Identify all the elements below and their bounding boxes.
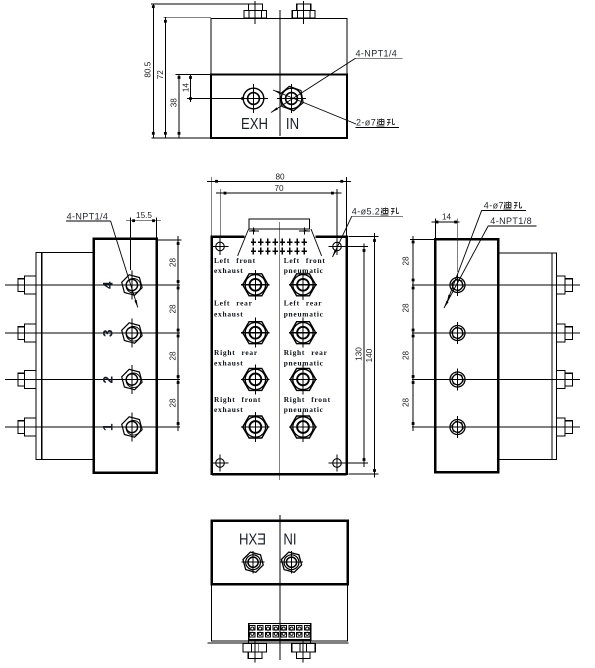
svg-text:4-ø5.2: 4-ø5.2	[352, 207, 380, 217]
dimension 72 line	[164, 17, 167, 138]
dimension 28 text 1 (right view)	[402, 256, 411, 266]
port left column row 3 (front view)	[241, 364, 269, 394]
svg-text:exhaust: exhaust	[214, 310, 243, 319]
dimension 140 top extension	[349, 236, 379, 238]
port row 1 (right view)	[450, 274, 465, 296]
bottom view block upper part (front face)	[212, 521, 348, 584]
leader to 4-NPT1/4 (left view)	[111, 221, 138, 308]
mounting hole bottom-left	[212, 455, 229, 472]
callout 4-o7 through hole	[482, 200, 526, 210]
left view bolt 2	[18, 371, 36, 389]
dimension 130 line	[363, 244, 366, 468]
callout 4-o5.2 through hole	[352, 207, 403, 217]
port EXH (bottom view)	[242, 551, 265, 574]
dimension 38 line	[178, 74, 181, 138]
callout 4-NPT1/4 (top view)	[355, 49, 403, 59]
svg-text:130: 130	[354, 347, 363, 361]
svg-text:4-NPT1/4: 4-NPT1/4	[67, 211, 109, 221]
left view bolt 4	[18, 276, 36, 294]
leader to 4-o7 hole (right view)	[447, 210, 482, 302]
svg-text:4-NPT1/4: 4-NPT1/4	[356, 49, 398, 59]
right view gasket plate	[552, 253, 556, 460]
svg-text:Left front: Left front	[214, 256, 256, 265]
row 4 centerline (right view)	[412, 426, 580, 428]
dimension 80.5 top extension line	[151, 3, 248, 5]
svg-text:exhaust: exhaust	[214, 405, 243, 414]
dimension 80.5 text	[144, 61, 153, 77]
mounting hole top-left	[212, 238, 229, 255]
svg-text:28: 28	[402, 398, 411, 408]
left view bolt 3	[18, 324, 36, 342]
port label row 3 left	[214, 348, 258, 368]
port number 3	[101, 329, 116, 337]
port number 4	[101, 281, 116, 289]
right view mounting plate	[498, 253, 552, 460]
svg-text:28: 28	[402, 303, 411, 313]
dimension 130 text	[354, 347, 363, 361]
dimension 28 top extension (left view)	[157, 239, 182, 241]
dimension 80.5 bottom extension line	[151, 137, 211, 139]
leader to 4-o5.2 hole	[333, 216, 352, 257]
top view vertical centerline	[279, 10, 281, 136]
svg-text:2: 2	[101, 376, 116, 384]
port number 1	[101, 423, 116, 431]
left view bolt 1	[18, 418, 36, 436]
top view bolt 2 cap	[297, 4, 311, 10]
svg-text:exhaust: exhaust	[214, 359, 243, 368]
dimension 72 top extension line	[163, 17, 211, 19]
bottom bolt 2	[292, 640, 316, 662]
dimension 72 text	[156, 70, 165, 80]
svg-text:Left rear: Left rear	[214, 299, 253, 308]
svg-text:Right front: Right front	[214, 395, 261, 404]
port number 2	[101, 376, 116, 384]
svg-text:4: 4	[101, 281, 116, 289]
dimension 28 text 4 (right view)	[402, 398, 411, 408]
label EXH mirrored (bottom view)	[239, 531, 266, 548]
row 2 centerline (right view)	[412, 332, 580, 334]
port 3 (left view)	[122, 319, 142, 348]
bottom view block lower part	[212, 584, 348, 641]
svg-text:NI: NI	[283, 531, 296, 548]
svg-text:Right front: Right front	[284, 395, 331, 404]
svg-text:4-ø7: 4-ø7	[484, 200, 504, 210]
svg-text:28: 28	[402, 256, 411, 266]
svg-text:14: 14	[181, 83, 190, 93]
svg-text:2-ø7: 2-ø7	[356, 118, 376, 128]
connector pins (front view)	[251, 239, 307, 255]
dimension 80 left extension	[211, 177, 213, 237]
dimension 80 text	[275, 172, 285, 181]
bottom view vertical centerline	[279, 515, 281, 660]
row 2 centerline (left view)	[5, 379, 180, 381]
port 1 (left view)	[122, 413, 142, 442]
dimension 140 text	[365, 348, 374, 362]
svg-text:70: 70	[274, 184, 284, 193]
dimension 28 text 2 (left view)	[168, 304, 177, 314]
dimension 14 right extension (right view)	[456, 219, 458, 273]
leader to 4-NPT1/8 (right view)	[444, 226, 488, 308]
right view bolt 3	[556, 371, 572, 389]
connector recess right slant	[311, 229, 322, 256]
right view bolt 2	[556, 324, 572, 342]
right view bolt 4	[556, 418, 572, 436]
connector tab on top of front view	[249, 219, 310, 229]
port left column row 2 (front view)	[241, 318, 269, 348]
port 4 (left view)	[122, 271, 142, 300]
top view block outline upper part	[211, 18, 347, 74]
right view main block	[435, 239, 498, 472]
svg-text:4-NPT1/8: 4-NPT1/8	[490, 216, 532, 226]
connector side walls to base	[249, 640, 311, 644]
svg-text:14: 14	[442, 213, 452, 222]
svg-text:38: 38	[169, 98, 178, 108]
port label row 4 right	[284, 395, 331, 414]
label EXH	[241, 116, 268, 133]
svg-text:pneumatic: pneumatic	[284, 405, 324, 414]
svg-text:Right rear: Right rear	[284, 348, 328, 357]
top view bolt 2 head	[292, 10, 315, 18]
top view bolt 1 head	[244, 10, 267, 18]
port label row 1 left	[214, 256, 256, 275]
svg-text:28: 28	[168, 398, 177, 408]
top view bolt 1 centerline	[254, 1, 256, 24]
port label row 2 left	[214, 299, 253, 319]
port right column row 1 (front view)	[289, 270, 317, 300]
svg-text:72: 72	[156, 70, 165, 80]
port label row 2 right	[284, 299, 324, 319]
dimension 130 bottom extension	[342, 462, 368, 464]
dimension 15.5 text	[136, 211, 152, 220]
dimension 140 line	[373, 233, 376, 478]
port label row 3 right	[284, 348, 328, 368]
svg-text:pneumatic: pneumatic	[284, 359, 324, 368]
top view bolt 2 centerline	[303, 1, 305, 24]
connector pin holes (bottom view)	[250, 625, 310, 637]
dimension 80.5 line	[152, 4, 155, 138]
port right column row 2 (front view)	[289, 318, 317, 348]
left view main block	[94, 239, 157, 473]
dimension 28 text 3 (right view)	[402, 351, 411, 361]
port right column row 3 (front view)	[289, 364, 317, 394]
svg-text:80.5: 80.5	[144, 61, 153, 77]
dimension 14 text (right view)	[442, 213, 452, 222]
dimension 14 line (top view)	[189, 74, 192, 102]
dimension 14 line (right view)	[432, 221, 460, 224]
svg-text:28: 28	[168, 351, 177, 361]
small arrow mark right	[299, 227, 310, 234]
svg-text:pneumatic: pneumatic	[284, 310, 324, 319]
port EXH (top view)	[239, 84, 268, 113]
dimension 140 bottom extension	[349, 473, 379, 475]
dimension 15.5 right extension	[156, 218, 158, 239]
dimension 14 extension line to EXH port	[187, 97, 244, 100]
callout 2-o7 through hole (top view)	[356, 118, 400, 128]
svg-text:28: 28	[168, 304, 177, 314]
svg-text:pneumatic: pneumatic	[284, 266, 324, 275]
port label row 4 left	[214, 395, 261, 414]
row 4 centerline (left view)	[5, 284, 180, 286]
svg-text:140: 140	[365, 348, 374, 362]
svg-text:Left front: Left front	[284, 256, 326, 265]
dimension 70 left extension	[219, 189, 221, 247]
dimension 15.5 left extension	[130, 218, 132, 271]
dimension 130 top extension	[342, 246, 368, 248]
svg-text:Left rear: Left rear	[284, 299, 323, 308]
dimension 70 right extension	[336, 189, 338, 242]
dimension 15.5 line	[126, 219, 161, 222]
port row 4 (right view)	[450, 416, 465, 438]
row 1 centerline (left view)	[5, 426, 180, 428]
front view vertical centerline	[279, 222, 281, 480]
top view bolt 1 cap	[248, 4, 262, 10]
svg-text:EXH: EXH	[239, 531, 266, 548]
dimension 70 text	[274, 184, 284, 193]
dimension 14 text (top view)	[181, 83, 190, 93]
svg-text:3: 3	[101, 329, 116, 337]
leader to 2-o7 hole (top view)	[273, 90, 356, 124]
mounting hole top-right	[329, 238, 346, 255]
dimension 80 right extension	[346, 177, 348, 237]
svg-text:28: 28	[168, 258, 177, 268]
dimension 14 left extension (right view)	[435, 219, 437, 240]
dimension 28 column line (left view)	[177, 236, 180, 431]
label NI (bottom view, reversed IN)	[283, 531, 296, 548]
svg-text:Right rear: Right rear	[214, 348, 258, 357]
port IN (top view)	[277, 84, 306, 113]
label IN	[286, 116, 299, 133]
port row 3 (right view)	[450, 369, 465, 391]
svg-text:80: 80	[275, 172, 285, 181]
port row 2 (right view)	[450, 322, 465, 344]
top view block outline lower part (front face)	[211, 75, 347, 139]
dimension 28 text 1 (left view)	[168, 258, 177, 268]
port right column row 4 (front view)	[289, 412, 317, 442]
svg-text:28: 28	[402, 351, 411, 361]
port label row 1 right	[284, 256, 326, 275]
dimension 28 text 2 (right view)	[402, 303, 411, 313]
leader to 4-NPT1/4 (top view)	[271, 58, 356, 112]
mounting hole bottom-right	[329, 455, 346, 472]
bottom bolt 1	[243, 640, 267, 662]
small arrow mark left	[249, 227, 259, 234]
svg-text:exhaust: exhaust	[214, 266, 243, 275]
row 3 centerline (right view)	[412, 379, 580, 381]
dimension 28 column line (right view)	[412, 236, 415, 431]
right view bolt 1	[556, 276, 572, 294]
dimension 70 line	[216, 192, 342, 195]
row 1 centerline (right view)	[412, 284, 580, 286]
svg-text:EXH: EXH	[241, 116, 268, 133]
front view block outline	[212, 236, 347, 476]
svg-text:1: 1	[101, 423, 116, 431]
callout 4-NPT1/8	[488, 216, 536, 226]
dimension 28 text 3 (left view)	[168, 351, 177, 361]
left view mounting plate	[42, 253, 94, 460]
port 2 (left view)	[122, 365, 142, 394]
port left column row 1 (front view)	[241, 270, 269, 300]
dimension 28 text 4 (left view)	[168, 398, 177, 408]
dimension 80 line	[207, 180, 351, 183]
dimension 38 extension line	[176, 74, 212, 76]
electrical connector (bottom view)	[249, 624, 311, 640]
port left column row 4 (front view)	[241, 412, 269, 442]
svg-text:IN: IN	[286, 116, 299, 133]
bottom view base line	[208, 642, 349, 644]
row 3 centerline (left view)	[5, 332, 180, 334]
connector recess left slant	[238, 229, 249, 256]
svg-text:15.5: 15.5	[136, 211, 152, 220]
callout 4-NPT1/4 (left view)	[66, 211, 111, 221]
dimension 38 text	[169, 98, 178, 108]
dimension 28 top extension (right view)	[410, 238, 435, 240]
left view gasket plate	[36, 253, 42, 460]
port IN (bottom view)	[280, 551, 303, 574]
